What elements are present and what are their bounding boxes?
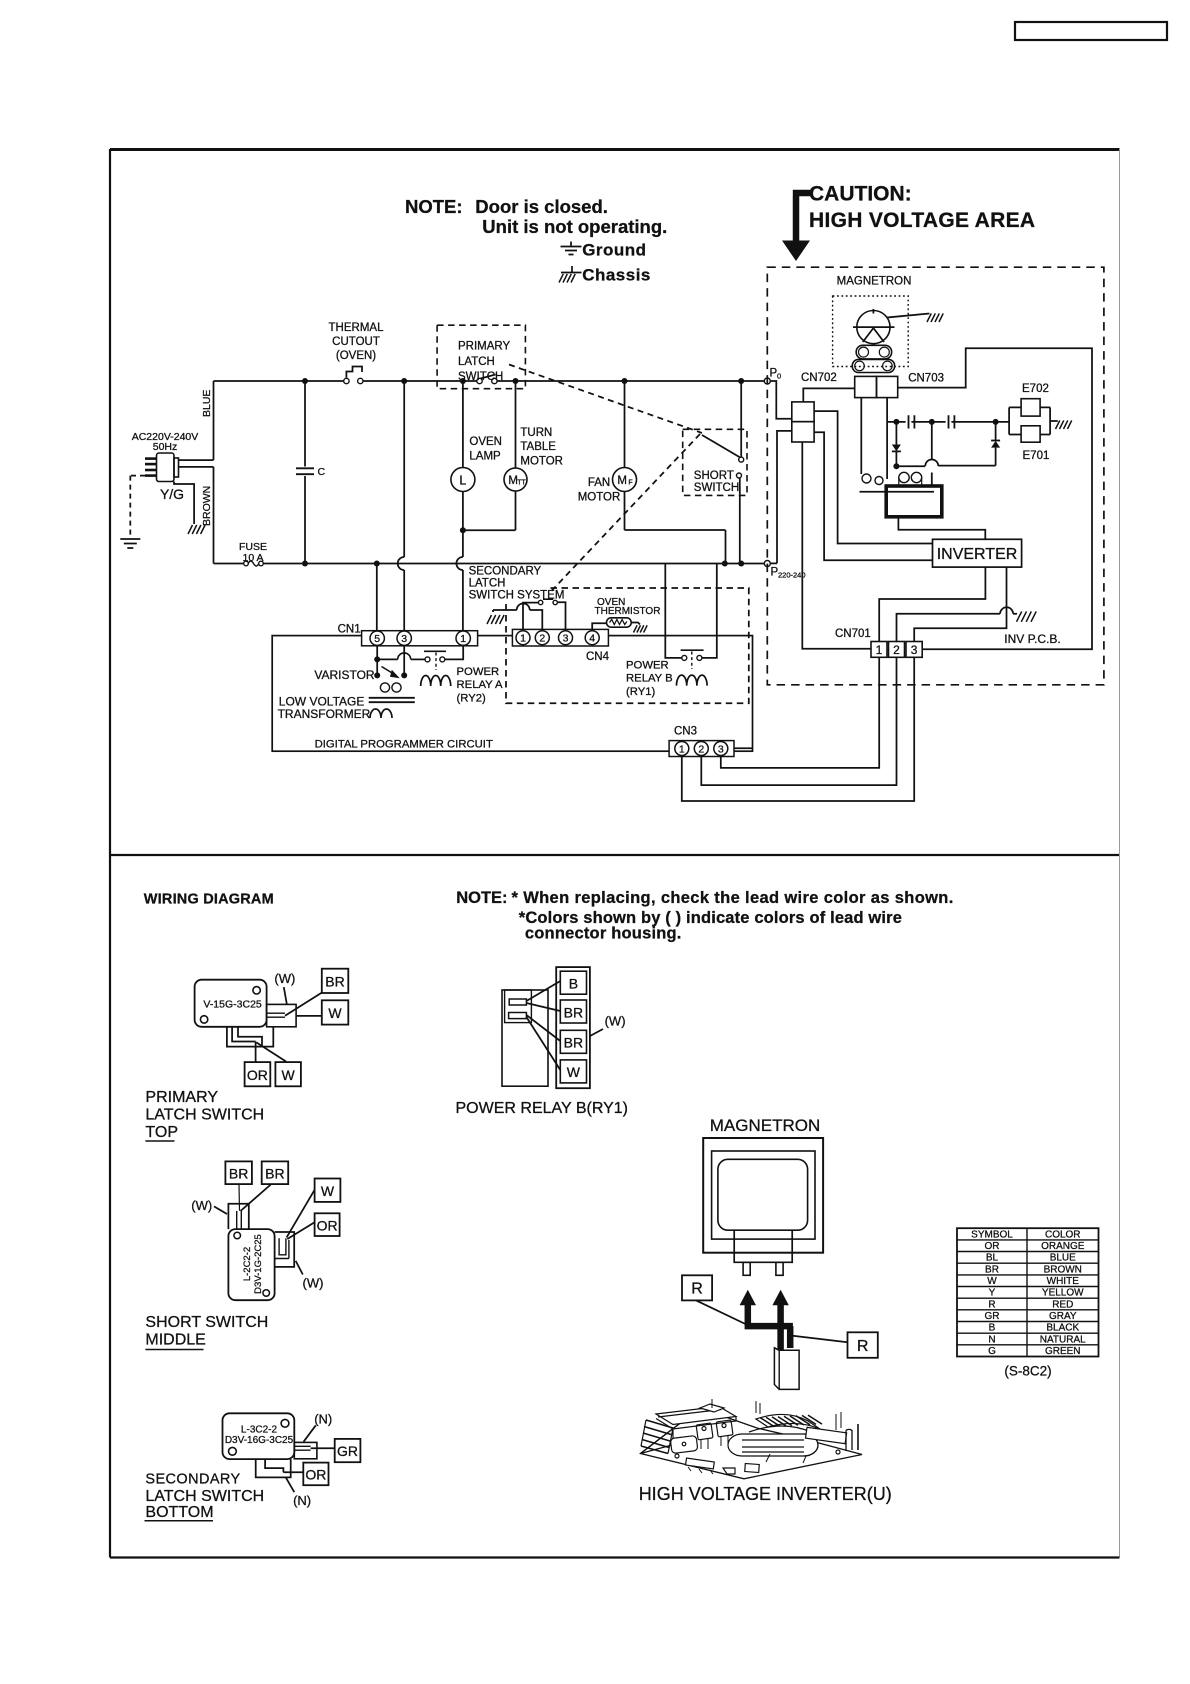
svg-text:50Hz: 50Hz bbox=[153, 441, 178, 453]
svg-text:POWER: POWER bbox=[626, 660, 669, 672]
svg-text:INV P.C.B.: INV P.C.B. bbox=[1004, 632, 1060, 646]
svg-text:OR: OR bbox=[985, 1241, 1000, 1252]
svg-text:E702: E702 bbox=[1022, 383, 1049, 395]
svg-text:Ground: Ground bbox=[582, 241, 646, 260]
svg-text:CN1: CN1 bbox=[338, 624, 361, 636]
svg-text:W: W bbox=[987, 1276, 997, 1287]
svg-text:BR: BR bbox=[985, 1264, 999, 1275]
svg-text:HIGH VOLTAGE AREA: HIGH VOLTAGE AREA bbox=[809, 209, 1035, 232]
svg-text:3: 3 bbox=[563, 632, 569, 644]
svg-text:(W): (W) bbox=[303, 1276, 324, 1291]
svg-text:2: 2 bbox=[893, 643, 900, 657]
svg-text:* When replacing, check the le: * When replacing, check the lead wire co… bbox=[512, 889, 954, 907]
svg-text:BR: BR bbox=[564, 1035, 583, 1051]
svg-text:SHORT SWITCH: SHORT SWITCH bbox=[145, 1314, 268, 1331]
svg-text:NOTE:: NOTE: bbox=[405, 196, 463, 217]
svg-text:WHITE: WHITE bbox=[1047, 1276, 1080, 1287]
svg-text:BLUE: BLUE bbox=[1050, 1253, 1076, 1264]
svg-text:10 A: 10 A bbox=[242, 552, 263, 564]
svg-text:DIGITAL PROGRAMMER CIRCUIT: DIGITAL PROGRAMMER CIRCUIT bbox=[315, 739, 493, 751]
svg-text:INVERTER: INVERTER bbox=[937, 546, 1018, 563]
svg-text:CN702: CN702 bbox=[801, 372, 837, 384]
svg-text:220-240: 220-240 bbox=[778, 571, 806, 580]
svg-text:Unit is not operating.: Unit is not operating. bbox=[482, 216, 667, 237]
svg-text:Y: Y bbox=[989, 1288, 996, 1299]
svg-text:SYMBOL: SYMBOL bbox=[971, 1229, 1013, 1240]
svg-text:connector housing.: connector housing. bbox=[525, 925, 682, 943]
svg-text:BOTTOM: BOTTOM bbox=[145, 1504, 213, 1521]
svg-text:VARISTOR: VARISTOR bbox=[314, 668, 375, 682]
svg-text:TOP: TOP bbox=[145, 1124, 178, 1141]
svg-text:BLACK: BLACK bbox=[1046, 1323, 1079, 1334]
svg-text:TRANSFORMER: TRANSFORMER bbox=[278, 707, 371, 721]
svg-text:MIDDLE: MIDDLE bbox=[145, 1332, 205, 1349]
svg-text:3: 3 bbox=[718, 743, 724, 755]
svg-text:BR: BR bbox=[564, 1004, 583, 1020]
svg-text:GR: GR bbox=[337, 1443, 358, 1459]
svg-text:3: 3 bbox=[401, 633, 407, 645]
svg-text:(OVEN): (OVEN) bbox=[336, 350, 376, 362]
svg-text:4: 4 bbox=[589, 632, 595, 644]
svg-text:OR: OR bbox=[305, 1467, 326, 1483]
svg-text:CUTOUT: CUTOUT bbox=[332, 336, 380, 348]
svg-text:SECONDARY: SECONDARY bbox=[145, 1472, 240, 1488]
svg-text:TURN: TURN bbox=[520, 427, 552, 439]
svg-text:D3V-16G-3C25: D3V-16G-3C25 bbox=[225, 1435, 294, 1446]
svg-text:W: W bbox=[321, 1183, 335, 1199]
svg-text:BR: BR bbox=[229, 1166, 248, 1182]
svg-text:(RY2): (RY2) bbox=[457, 693, 487, 705]
svg-text:1: 1 bbox=[876, 643, 883, 657]
svg-text:ORANGE: ORANGE bbox=[1041, 1241, 1085, 1252]
svg-text:Chassis: Chassis bbox=[582, 266, 651, 285]
svg-text:THERMAL: THERMAL bbox=[329, 322, 385, 334]
svg-text:3: 3 bbox=[911, 643, 918, 657]
svg-text:YELLOW: YELLOW bbox=[1042, 1288, 1084, 1299]
svg-text:(N): (N) bbox=[314, 1412, 332, 1427]
svg-text:LATCH SWITCH: LATCH SWITCH bbox=[145, 1488, 264, 1505]
svg-text:F: F bbox=[628, 480, 632, 487]
svg-text:BL: BL bbox=[986, 1253, 999, 1264]
svg-text:L-2C2-2: L-2C2-2 bbox=[242, 1247, 253, 1281]
svg-text:W: W bbox=[567, 1064, 581, 1080]
svg-text:(S-8C2): (S-8C2) bbox=[1004, 1364, 1051, 1379]
svg-text:SECONDARY: SECONDARY bbox=[469, 566, 542, 578]
svg-text:BR: BR bbox=[325, 974, 344, 990]
svg-text:W: W bbox=[281, 1067, 295, 1083]
svg-text:PRIMARY: PRIMARY bbox=[458, 341, 511, 353]
svg-text:BR: BR bbox=[265, 1166, 284, 1182]
svg-text:COLOR: COLOR bbox=[1045, 1229, 1081, 1240]
svg-text:D3V-1G-2C25: D3V-1G-2C25 bbox=[253, 1234, 264, 1294]
svg-text:TT: TT bbox=[517, 480, 526, 487]
svg-text:RED: RED bbox=[1052, 1299, 1073, 1310]
svg-text:MAGNETRON: MAGNETRON bbox=[837, 276, 912, 288]
svg-text:LATCH: LATCH bbox=[469, 578, 506, 590]
svg-text:M: M bbox=[617, 475, 627, 487]
svg-text:PRIMARY: PRIMARY bbox=[145, 1089, 218, 1106]
svg-text:BLUE: BLUE bbox=[201, 390, 213, 417]
svg-text:RELAY B: RELAY B bbox=[626, 673, 673, 685]
svg-text:OR: OR bbox=[247, 1067, 268, 1083]
svg-text:RELAY A: RELAY A bbox=[457, 679, 504, 691]
svg-text:HIGH VOLTAGE INVERTER(U): HIGH VOLTAGE INVERTER(U) bbox=[639, 1484, 892, 1504]
svg-text:2: 2 bbox=[539, 632, 545, 644]
svg-text:CN3: CN3 bbox=[674, 726, 697, 738]
svg-text:POWER RELAY B(RY1): POWER RELAY B(RY1) bbox=[456, 1100, 629, 1117]
svg-text:B: B bbox=[569, 976, 578, 992]
svg-text:BROWN: BROWN bbox=[201, 486, 213, 526]
svg-text:L: L bbox=[459, 473, 466, 487]
svg-text:C: C bbox=[318, 466, 326, 478]
svg-text:G: G bbox=[988, 1346, 996, 1357]
svg-text:B: B bbox=[989, 1323, 996, 1334]
svg-text:NOTE:: NOTE: bbox=[456, 889, 507, 907]
svg-text:FAN: FAN bbox=[588, 477, 610, 489]
svg-text:5: 5 bbox=[374, 633, 380, 645]
svg-text:OVEN: OVEN bbox=[469, 436, 502, 448]
svg-text:R: R bbox=[988, 1299, 995, 1310]
svg-text:MAGNETRON: MAGNETRON bbox=[710, 1116, 821, 1135]
svg-text:LATCH SWITCH: LATCH SWITCH bbox=[145, 1107, 264, 1124]
svg-text:CAUTION:: CAUTION: bbox=[809, 183, 912, 206]
svg-text:POWER: POWER bbox=[457, 666, 500, 678]
svg-text:CN703: CN703 bbox=[908, 373, 944, 385]
svg-text:NATURAL: NATURAL bbox=[1040, 1334, 1086, 1345]
svg-text:GREEN: GREEN bbox=[1045, 1346, 1081, 1357]
svg-text:E701: E701 bbox=[1023, 450, 1050, 462]
svg-text:N: N bbox=[988, 1334, 995, 1345]
svg-text:R: R bbox=[857, 1338, 869, 1355]
svg-text:CN4: CN4 bbox=[586, 651, 610, 663]
svg-text:0: 0 bbox=[777, 372, 781, 381]
svg-text:TABLE: TABLE bbox=[520, 441, 556, 453]
svg-text:(W): (W) bbox=[605, 1014, 626, 1029]
svg-text:(RY1): (RY1) bbox=[626, 686, 656, 698]
svg-text:SHORT: SHORT bbox=[694, 470, 734, 482]
svg-text:1: 1 bbox=[520, 632, 526, 644]
svg-text:(N): (N) bbox=[293, 1493, 311, 1508]
svg-text:1: 1 bbox=[460, 633, 466, 645]
svg-text:GR: GR bbox=[985, 1311, 1000, 1322]
svg-text:(W): (W) bbox=[274, 971, 295, 986]
svg-text:W: W bbox=[328, 1005, 342, 1021]
svg-text:THERMISTOR: THERMISTOR bbox=[595, 606, 661, 617]
svg-text:CN701: CN701 bbox=[835, 628, 871, 640]
svg-text:V-15G-3C25: V-15G-3C25 bbox=[203, 999, 262, 1011]
svg-text:R: R bbox=[691, 1281, 703, 1298]
svg-text:GRAY: GRAY bbox=[1049, 1311, 1077, 1322]
svg-text:Y/G: Y/G bbox=[160, 486, 184, 502]
svg-text:LATCH: LATCH bbox=[458, 356, 495, 368]
svg-text:LAMP: LAMP bbox=[469, 451, 501, 463]
svg-text:2: 2 bbox=[698, 743, 704, 755]
svg-text:L-3C2-2: L-3C2-2 bbox=[241, 1425, 278, 1436]
svg-text:(W): (W) bbox=[191, 1198, 212, 1213]
svg-text:OR: OR bbox=[317, 1218, 338, 1234]
svg-text:1: 1 bbox=[679, 743, 685, 755]
svg-text:WIRING DIAGRAM: WIRING DIAGRAM bbox=[144, 892, 274, 908]
svg-text:SWITCH: SWITCH bbox=[694, 482, 739, 494]
svg-text:Door is closed.: Door is closed. bbox=[475, 196, 608, 217]
svg-text:MOTOR: MOTOR bbox=[578, 492, 621, 504]
svg-text:MOTOR: MOTOR bbox=[520, 456, 563, 468]
svg-text:BROWN: BROWN bbox=[1044, 1264, 1082, 1275]
